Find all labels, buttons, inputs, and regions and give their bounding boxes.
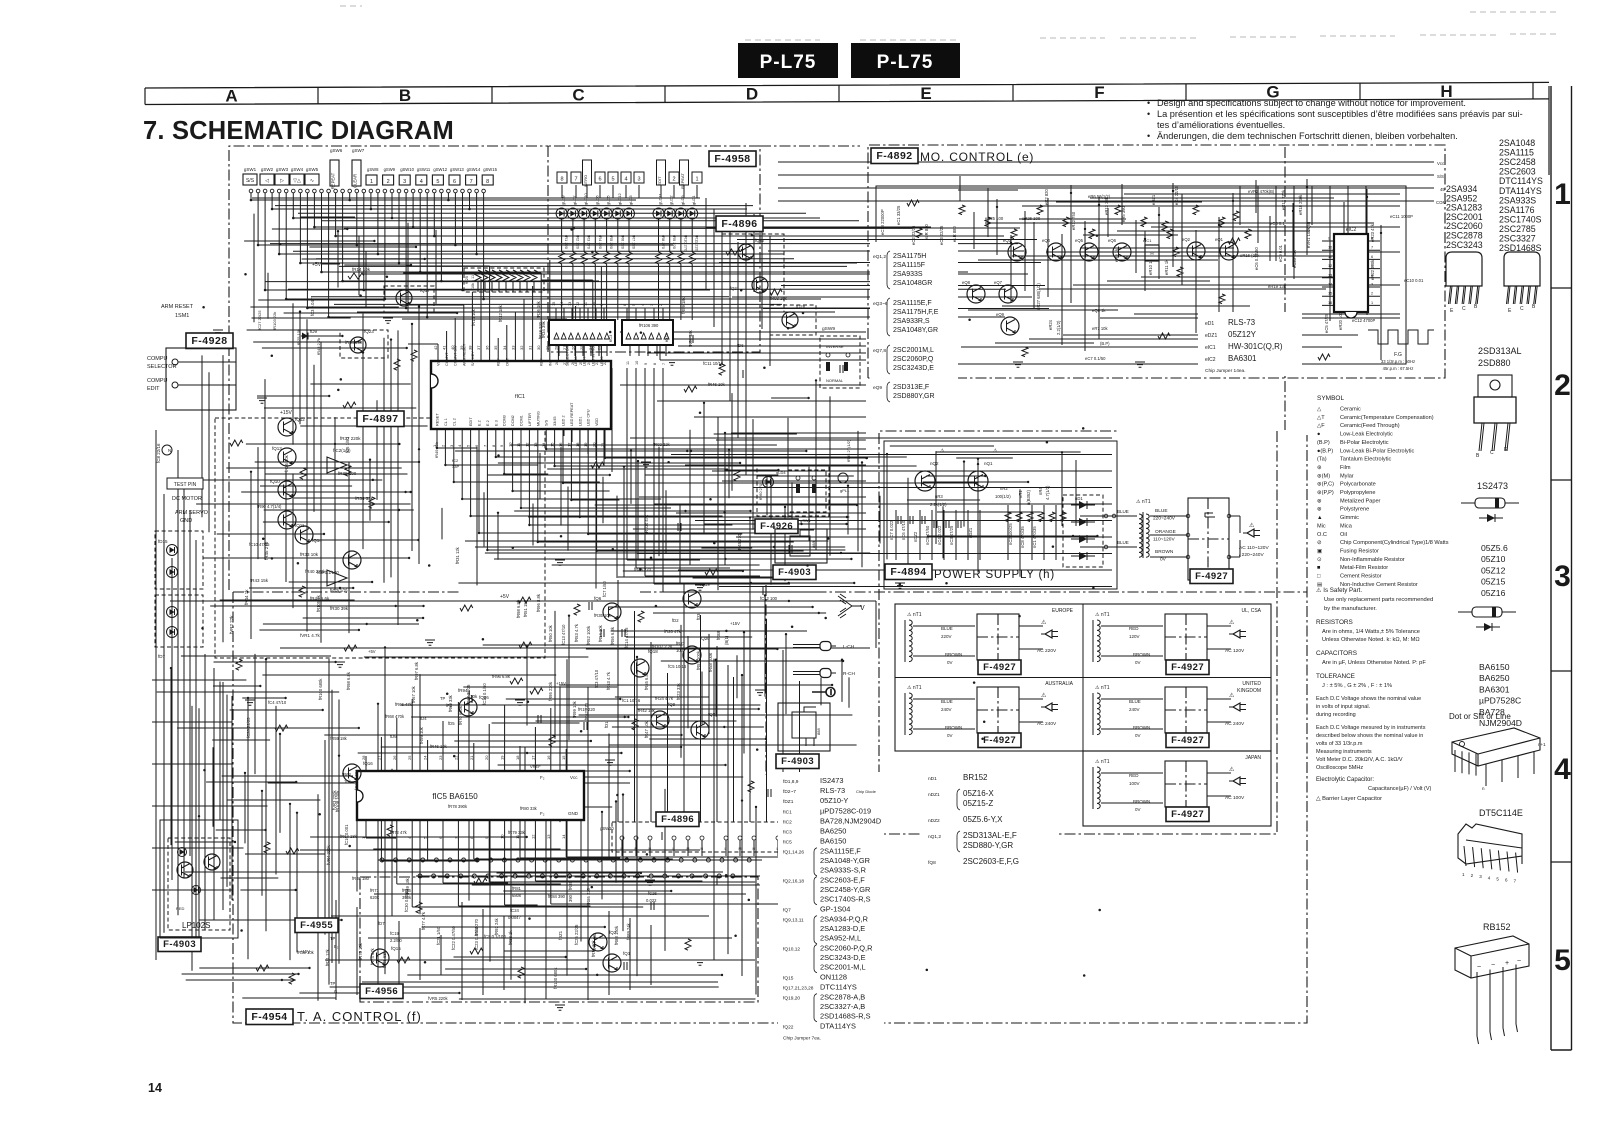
svg-text:eR10 1k: eR10 1k <box>1148 258 1153 275</box>
svg-text:IS2473: IS2473 <box>820 776 843 785</box>
svg-text:fR59 18k: fR59 18k <box>405 877 410 895</box>
svg-text:2SC2458-Y,GR: 2SC2458-Y,GR <box>820 885 870 894</box>
svg-text:•: • <box>1147 109 1150 119</box>
svg-text:D: D <box>746 85 758 104</box>
svg-text:240V: 240V <box>941 707 952 712</box>
svg-text:7: 7 <box>574 177 577 183</box>
svg-text:05Z16-X: 05Z16-X <box>963 789 994 798</box>
svg-text:fC25 22/25: fC25 22/25 <box>574 924 579 945</box>
svg-text:C: C <box>1462 306 1466 312</box>
svg-text:fQ9: fQ9 <box>668 702 676 707</box>
svg-text:nC1 470/35: nC1 470/35 <box>1032 526 1037 548</box>
svg-text:fC18 0.1/50: fC18 0.1/50 <box>482 683 487 705</box>
svg-text:fC8 22/16: fC8 22/16 <box>156 443 161 463</box>
svg-text:8: 8 <box>486 179 489 185</box>
svg-text:+: + <box>1505 960 1509 967</box>
svg-text:fR86 220: fR86 220 <box>586 887 591 905</box>
svg-text:eR13 33k: eR13 33k <box>1104 196 1109 215</box>
svg-text:fD6: fD6 <box>737 343 744 348</box>
svg-text:⚠ nT1: ⚠ nT1 <box>907 612 922 618</box>
svg-text:28: 28 <box>555 361 559 365</box>
svg-text:fR63: fR63 <box>342 772 352 777</box>
svg-text:nC2 100/25: nC2 100/25 <box>1008 523 1013 545</box>
svg-text:fD1: fD1 <box>604 721 609 728</box>
svg-text:21: 21 <box>469 755 474 760</box>
svg-text:13: 13 <box>1328 273 1332 277</box>
svg-text:eC9 0.01: eC9 0.01 <box>1278 244 1283 262</box>
svg-text:Oscilloscope 5MHz: Oscilloscope 5MHz <box>1316 765 1363 771</box>
svg-text:240V: 240V <box>1129 707 1140 712</box>
svg-text:0V: 0V <box>1135 807 1141 812</box>
svg-text:eC4 22/16: eC4 22/16 <box>1174 185 1179 205</box>
svg-text:eC7 0.1/50: eC7 0.1/50 <box>1085 356 1106 361</box>
svg-text:2SC2603-E,F: 2SC2603-E,F <box>820 876 865 885</box>
svg-text:2SC2785: 2SC2785 <box>1499 224 1536 234</box>
svg-text:Low-Leak Electrolytic: Low-Leak Electrolytic <box>1340 432 1393 438</box>
svg-text:F-4958: F-4958 <box>714 153 750 165</box>
svg-text:J : ± 5% , G ± 2% , F : ± 1%: J : ± 5% , G ± 2% , F : ± 1% <box>1322 683 1392 689</box>
svg-text:GP-1S04: GP-1S04 <box>820 905 850 914</box>
svg-text:2SC2001-M,L: 2SC2001-M,L <box>820 962 866 971</box>
svg-text:fR26 47k: fR26 47k <box>664 629 682 634</box>
svg-text:BA6150: BA6150 <box>1479 662 1510 672</box>
svg-text:nDZ1: nDZ1 <box>928 792 940 798</box>
svg-text:05Z12: 05Z12 <box>1481 565 1506 575</box>
svg-text:2SC3243-D,E: 2SC3243-D,E <box>820 953 866 962</box>
svg-text:Chip Component(Cylindrical Typ: Chip Component(Cylindrical Type)1/8 Watt… <box>1340 540 1449 546</box>
svg-text:2SA1283-D,E: 2SA1283-D,E <box>820 924 865 933</box>
svg-text:2SA933S: 2SA933S <box>893 271 923 278</box>
svg-text:eVR1 100k(B): eVR1 100k(B) <box>1306 221 1311 248</box>
svg-text:0V: 0V <box>947 733 953 738</box>
svg-text:fR88: fR88 <box>716 630 721 640</box>
svg-text:F-4927: F-4927 <box>1171 809 1204 820</box>
svg-text:gSW14: gSW14 <box>467 167 481 172</box>
svg-text:Are in ohms, 1/4 Watts,± 5%: Are in ohms, 1/4 Watts,± 5% Tolerance <box>1322 629 1420 635</box>
svg-text:gSW1: gSW1 <box>800 518 812 523</box>
svg-text:9: 9 <box>600 304 604 306</box>
svg-text:fC10 47/25: fC10 47/25 <box>249 542 270 547</box>
svg-text:UNITED: UNITED <box>1242 681 1261 687</box>
svg-text:fR47 10k: fR47 10k <box>644 720 649 738</box>
svg-text:45: 45 <box>1440 187 1445 192</box>
svg-text:eR5 390: eR5 390 <box>1121 205 1126 222</box>
svg-text:−: − <box>1491 962 1495 969</box>
svg-text:V: V <box>860 605 865 612</box>
svg-text:fIC2(1/2): fIC2(1/2) <box>330 588 348 593</box>
svg-text:10k: 10k <box>344 779 352 784</box>
svg-text:fR55 6.8k: fR55 6.8k <box>644 671 649 690</box>
svg-text:27: 27 <box>563 361 567 365</box>
svg-text:eC2 22/25: eC2 22/25 <box>911 225 916 245</box>
svg-text:fR36 10k: fR36 10k <box>536 300 541 318</box>
svg-text:P-L75: P-L75 <box>877 52 934 73</box>
svg-text:fQ12: fQ12 <box>295 417 305 422</box>
svg-text:2: 2 <box>659 304 663 306</box>
svg-text:AC 100V: AC 100V <box>1225 795 1245 801</box>
svg-text:SYMBOL: SYMBOL <box>1317 395 1344 402</box>
svg-text:Tantalum Electrolytic: Tantalum Electrolytic <box>1340 457 1391 463</box>
svg-text:LED 2: LED 2 <box>562 415 566 426</box>
svg-text:gLD3: gLD3 <box>628 195 633 205</box>
svg-text:eR23 47k: eR23 47k <box>1370 223 1375 242</box>
svg-text:05Z16: 05Z16 <box>1481 588 1506 598</box>
svg-text:1: 1 <box>695 177 698 183</box>
svg-text:fR89 24k: fR89 24k <box>626 922 631 940</box>
svg-text:n+1: n+1 <box>1538 742 1546 747</box>
svg-text:14: 14 <box>560 302 564 306</box>
svg-text:2SA933S-S,R: 2SA933S-S,R <box>820 866 866 875</box>
svg-text:gSW9: gSW9 <box>384 167 396 172</box>
svg-text:F-4955: F-4955 <box>300 920 333 931</box>
svg-text:fQ17: fQ17 <box>420 288 430 293</box>
svg-text:BA6250: BA6250 <box>820 827 846 836</box>
svg-text:0V: 0V <box>1160 557 1167 563</box>
svg-text:△F: △F <box>1317 423 1325 429</box>
svg-text:eR20 100: eR20 100 <box>1338 311 1343 330</box>
svg-text:fQ16: fQ16 <box>363 761 373 766</box>
svg-text:⚠: ⚠ <box>1041 619 1047 626</box>
svg-text:F-4903: F-4903 <box>163 939 196 950</box>
svg-text:eC8 0.1: eC8 0.1 <box>1270 221 1285 226</box>
svg-text:fQ19,20: fQ19,20 <box>783 996 800 1002</box>
svg-text:Mic: Mic <box>1317 523 1326 529</box>
svg-text:gLD8: gLD8 <box>561 195 566 205</box>
svg-text:12: 12 <box>576 302 580 306</box>
svg-text:fC9 0.1/100: fC9 0.1/100 <box>484 934 506 939</box>
svg-text:INTRO: INTRO <box>583 175 588 187</box>
svg-text:Vss: Vss <box>437 360 441 366</box>
svg-text:26: 26 <box>392 755 397 760</box>
svg-text:2SD880-Y,GR: 2SD880-Y,GR <box>963 841 1013 850</box>
svg-text:nD1: nD1 <box>928 776 937 782</box>
svg-text:E₂: E₂ <box>334 944 339 949</box>
svg-text:fQ20: fQ20 <box>700 636 710 641</box>
svg-text:fD2: fD2 <box>672 618 679 623</box>
svg-text:gSW5: gSW5 <box>306 167 319 172</box>
svg-text:L: L <box>621 847 623 851</box>
svg-text:H: H <box>1150 251 1153 256</box>
svg-text:fIC1: fIC1 <box>783 809 792 815</box>
svg-text:volts of 33 1/3r.p.m: volts of 33 1/3r.p.m <box>1316 741 1363 747</box>
svg-text:fQ21: fQ21 <box>730 286 740 291</box>
svg-text:2SA1175H,F,E: 2SA1175H,F,E <box>893 309 939 316</box>
svg-text:fC3 47/10: fC3 47/10 <box>594 669 599 688</box>
svg-text:2: 2 <box>387 179 390 185</box>
svg-text:IN: IN <box>548 362 552 366</box>
svg-text:nC6 47/10: nC6 47/10 <box>901 520 906 540</box>
svg-text:fQ13: fQ13 <box>272 446 282 451</box>
svg-text:nR4: nR4 <box>1038 487 1043 495</box>
svg-text:INVERSE: INVERSE <box>826 344 844 349</box>
svg-text:⚠: ⚠ <box>940 448 945 454</box>
svg-text:fR93 10k: fR93 10k <box>770 296 788 301</box>
svg-text:L-CH: L-CH <box>843 644 855 650</box>
svg-text:2SC3243D,E: 2SC3243D,E <box>893 365 934 372</box>
svg-text:fQ9,13,11: fQ9,13,11 <box>783 918 804 924</box>
svg-text:fR9 220: fR9 220 <box>672 235 677 250</box>
svg-text:eIC1: eIC1 <box>1205 345 1216 351</box>
svg-text:31: 31 <box>528 345 533 350</box>
svg-text:Metalized Paper: Metalized Paper <box>1340 498 1381 504</box>
svg-text:2SA1115E,F: 2SA1115E,F <box>893 300 932 307</box>
svg-text:eR19 13k: eR19 13k <box>1268 284 1287 289</box>
svg-text:fR69 33k: fR69 33k <box>448 694 453 712</box>
svg-text:L: L <box>673 847 675 851</box>
svg-text:620k: 620k <box>370 895 380 900</box>
svg-text:VDD: VDD <box>595 418 599 426</box>
svg-text:05Z5.6-Y,X: 05Z5.6-Y,X <box>963 815 1003 824</box>
svg-text:GND: GND <box>180 518 192 524</box>
svg-text:34: 34 <box>502 345 507 350</box>
svg-text:TP: TP <box>330 981 336 986</box>
svg-text:EDIT: EDIT <box>469 417 473 426</box>
svg-text:100(1/2): 100(1/2) <box>995 494 1011 499</box>
svg-text:fR44 1k: fR44 1k <box>244 589 249 605</box>
svg-text:fQ15: fQ15 <box>783 975 794 981</box>
svg-text:fR19 220: fR19 220 <box>578 707 596 712</box>
svg-text:7: 7 <box>470 179 473 185</box>
svg-text:LED CPU: LED CPU <box>587 409 591 426</box>
svg-text:tes d’améliorations éventuelle: tes d’améliorations éventuelles. <box>1157 120 1285 130</box>
svg-text:LED REPEAT: LED REPEAT <box>570 402 574 426</box>
svg-text:gLD10: gLD10 <box>583 192 588 205</box>
svg-text:F-4927: F-4927 <box>983 735 1016 746</box>
svg-text:2SC3243: 2SC3243 <box>1446 240 1483 250</box>
svg-text:AUSTRALIA: AUSTRALIA <box>1045 681 1073 687</box>
svg-text:F-4894: F-4894 <box>890 566 926 578</box>
svg-text:fR74 47k: fR74 47k <box>370 947 375 965</box>
svg-text:fR31 12k: fR31 12k <box>455 546 460 564</box>
svg-text:gSW9: gSW9 <box>822 326 835 332</box>
svg-text:25: 25 <box>407 755 412 760</box>
svg-text:TP: TP <box>330 936 336 941</box>
svg-text:KINGDOM: KINGDOM <box>1237 688 1261 694</box>
svg-text:LED1: LED1 <box>578 417 582 427</box>
svg-text:nDZ1: nDZ1 <box>968 527 973 538</box>
svg-text:1: 1 <box>370 179 373 185</box>
svg-text:fQ19: fQ19 <box>700 582 710 587</box>
svg-text:EDIT: EDIT <box>147 386 160 392</box>
svg-text:fR7 220: fR7 220 <box>632 235 637 250</box>
svg-text:La présention et les spécifica: La présention et les spécifications sont… <box>1157 109 1523 119</box>
svg-text:fR42 18k: fR42 18k <box>498 304 503 322</box>
svg-text:eR24: eR24 <box>1048 319 1053 330</box>
svg-text:gLD5: gLD5 <box>606 195 611 205</box>
svg-text:BA6301: BA6301 <box>1479 684 1510 694</box>
svg-text:fQ18: fQ18 <box>648 649 658 654</box>
svg-text:3: 3 <box>637 177 640 183</box>
svg-text:fIC3: fIC3 <box>783 830 792 836</box>
svg-text:KEY: KEY <box>497 358 501 366</box>
svg-text:Polystyrene: Polystyrene <box>1340 507 1369 513</box>
svg-text:eVR2 470k(B): eVR2 470k(B) <box>1248 189 1275 194</box>
svg-text:fQ1,14,26: fQ1,14,26 <box>783 850 804 856</box>
svg-text:⚠: ⚠ <box>1229 766 1235 773</box>
svg-text:BLUE: BLUE <box>1117 509 1129 514</box>
svg-text:fC21 1/50: fC21 1/50 <box>436 926 441 945</box>
svg-text:fC12 100: fC12 100 <box>760 596 778 601</box>
svg-text:Are in µF, Unless Otherwise: Are in µF, Unless Otherwise Noted. P: pF <box>1322 660 1426 666</box>
svg-text:fR2 220: fR2 220 <box>575 235 580 250</box>
svg-text:11: 11 <box>1328 255 1332 259</box>
svg-text:F₂: F₂ <box>540 811 545 816</box>
svg-text:eC20 13k: eC20 13k <box>1292 249 1297 268</box>
svg-text:⊛(M): ⊛(M) <box>1317 473 1330 479</box>
svg-text:▷: ▷ <box>280 178 284 184</box>
svg-text:eC10 0.01: eC10 0.01 <box>1404 278 1424 283</box>
svg-text:33P: 33P <box>452 464 459 469</box>
svg-text:fR1 220: fR1 220 <box>564 235 569 250</box>
svg-text:Unless Otherwise Noted. k: k: Unless Otherwise Noted. k: kΩ, M: MΩ <box>1322 637 1420 643</box>
svg-text:2SD313AL: 2SD313AL <box>1478 346 1522 356</box>
svg-text:◁: ◁ <box>265 178 269 184</box>
svg-text:⚠ nT1: ⚠ nT1 <box>1095 759 1110 765</box>
svg-text:+15V: +15V <box>730 621 740 626</box>
svg-text:F-4897: F-4897 <box>362 413 398 425</box>
svg-text:gLD11: gLD11 <box>658 193 663 205</box>
svg-text:BROWN: BROWN <box>1133 652 1150 657</box>
svg-text:VREF: VREF <box>530 764 541 769</box>
svg-text:fR106 390: fR106 390 <box>639 323 659 328</box>
svg-text:⚠: ⚠ <box>1249 522 1255 529</box>
svg-text:24: 24 <box>423 755 428 760</box>
svg-text:05Z15: 05Z15 <box>1481 577 1506 587</box>
svg-text:fR8 270: fR8 270 <box>661 235 666 250</box>
svg-text:fD2~7: fD2~7 <box>783 789 796 795</box>
svg-text:Ceramic: Ceramic <box>1340 407 1361 413</box>
svg-text:⊛(P,C): ⊛(P,C) <box>1317 482 1334 488</box>
svg-text:120V: 120V <box>1129 634 1140 639</box>
svg-text:COUNT: COUNT <box>445 352 449 366</box>
svg-text:Chip Diode: Chip Diode <box>856 789 877 794</box>
svg-text:C: C <box>1520 306 1524 312</box>
svg-text:DT5C114E: DT5C114E <box>1479 808 1523 818</box>
svg-text:5: 5 <box>1554 944 1571 977</box>
svg-text:eQ1,2: eQ1,2 <box>873 254 886 260</box>
svg-text:KEY: KEY <box>540 358 544 366</box>
svg-text:Vcc: Vcc <box>1437 161 1445 166</box>
svg-text:2SD313E,F: 2SD313E,F <box>893 384 929 391</box>
svg-text:fQ17,21,23,28: fQ17,21,23,28 <box>783 986 814 992</box>
svg-text:fR17 10k: fR17 10k <box>591 939 596 957</box>
svg-text:ARM RESET: ARM RESET <box>161 304 194 310</box>
svg-text:RED: RED <box>1129 773 1139 778</box>
svg-text:L: L <box>725 847 727 851</box>
svg-text:nDZ2: nDZ2 <box>913 531 918 542</box>
svg-text:eD1: eD1 <box>1205 321 1214 327</box>
svg-text:BR152: BR152 <box>963 773 988 782</box>
svg-text:fR54 10k: fR54 10k <box>598 624 603 642</box>
svg-text:△: △ <box>1317 407 1322 413</box>
svg-text:fR73 10k: fR73 10k <box>358 942 363 960</box>
svg-text:eQ7: eQ7 <box>994 280 1003 285</box>
svg-text:Fusing Resistor: Fusing Resistor <box>1340 548 1379 554</box>
svg-text:05Z12Y: 05Z12Y <box>1228 330 1257 339</box>
svg-text:EUROPE: EUROPE <box>1052 608 1074 614</box>
svg-text:fR34 33k: fR34 33k <box>355 496 374 501</box>
svg-text:Volt Meter D.C. 20kΩ/V, A.C.: Volt Meter D.C. 20kΩ/V, A.C. 1kΩ/V <box>1316 757 1403 763</box>
svg-text:fVR2 22k: fVR2 22k <box>229 615 234 634</box>
svg-text:fC5 10/16: fC5 10/16 <box>668 664 687 669</box>
svg-text:2SD880: 2SD880 <box>1478 358 1511 368</box>
svg-text:fR50 10k: fR50 10k <box>548 624 553 642</box>
svg-text:fR92 22k: fR92 22k <box>653 442 671 447</box>
svg-text:fR35 10k: fR35 10k <box>594 613 612 618</box>
svg-text:11: 11 <box>584 302 588 306</box>
svg-text:fR34 39k: fR34 39k <box>345 340 363 345</box>
svg-text:C: C <box>1490 450 1494 456</box>
svg-text:+5V: +5V <box>500 594 510 600</box>
svg-text:⚠: ⚠ <box>1041 692 1047 699</box>
svg-text:fR65 180: fR65 180 <box>352 876 370 881</box>
svg-text:△T: △T <box>1317 415 1325 421</box>
svg-text:F-4903: F-4903 <box>781 756 814 767</box>
svg-text:eC1 33/25: eC1 33/25 <box>896 205 901 225</box>
svg-text:13: 13 <box>546 834 551 839</box>
svg-text:(B.P): (B.P) <box>1317 440 1330 446</box>
svg-text:⊗: ⊗ <box>1317 498 1322 504</box>
svg-text:AC 220V: AC 220V <box>1037 648 1057 654</box>
svg-text:fDZ1: fDZ1 <box>558 930 563 940</box>
svg-text:nC4 0.022: nC4 0.022 <box>937 525 942 545</box>
svg-text:2SA933R,S: 2SA933R,S <box>893 318 930 325</box>
svg-text:Chip Jumper 14ea.: Chip Jumper 14ea. <box>1205 368 1246 374</box>
svg-text:RLS-73: RLS-73 <box>820 786 845 795</box>
svg-text:S/S: S/S <box>545 419 549 426</box>
svg-text:∿: ∿ <box>310 178 314 184</box>
svg-text:fR51 150: fR51 150 <box>523 599 528 617</box>
svg-text:fC9 0.1/100: fC9 0.1/100 <box>317 570 339 575</box>
svg-text:fR25 10k: fR25 10k <box>296 329 301 345</box>
svg-text:gLD9: gLD9 <box>680 195 685 205</box>
svg-text:3: 3 <box>1371 283 1373 287</box>
svg-text:3: 3 <box>403 179 406 185</box>
svg-text:M: M <box>687 847 690 851</box>
svg-text:fR37 220k: fR37 220k <box>340 436 361 441</box>
svg-text:fD3: fD3 <box>696 613 701 620</box>
svg-text:fR59 18k: fR59 18k <box>681 296 686 314</box>
svg-text:⚠: ⚠ <box>1229 619 1235 626</box>
svg-text:•: • <box>1147 131 1150 141</box>
svg-text:+15V: +15V <box>280 410 292 416</box>
svg-text:fR33 10k: fR33 10k <box>300 552 319 557</box>
svg-text:10: 10 <box>1328 246 1332 250</box>
svg-text:S/S: S/S <box>1437 174 1444 179</box>
svg-text:gSW10: gSW10 <box>400 167 414 172</box>
svg-text:Dot or Slit or Line: Dot or Slit or Line <box>1449 712 1511 721</box>
svg-text:38: 38 <box>467 345 472 350</box>
svg-text:fDZ1: fDZ1 <box>783 799 794 805</box>
svg-text:05Z10-Y: 05Z10-Y <box>820 796 848 805</box>
svg-text:BA6150: BA6150 <box>820 837 846 846</box>
svg-text:eR22 330k: eR22 330k <box>1370 259 1375 280</box>
svg-text:Measuring instruments: Measuring instruments <box>1316 749 1372 755</box>
svg-text:gLD6: gLD6 <box>594 195 599 205</box>
svg-text:fR36 10k: fR36 10k <box>284 454 289 472</box>
svg-text:12: 12 <box>1328 264 1332 268</box>
svg-text:CL 1: CL 1 <box>444 418 448 426</box>
svg-text:E 2: E 2 <box>478 420 482 426</box>
svg-text:fR46 10k: fR46 10k <box>708 382 726 387</box>
svg-text:gSW6: gSW6 <box>330 148 343 153</box>
svg-text:fR64 18k: fR64 18k <box>688 329 693 347</box>
svg-text:fQ15: fQ15 <box>391 946 401 951</box>
svg-text:14: 14 <box>541 442 546 447</box>
svg-text:2.2/50: 2.2/50 <box>390 938 402 943</box>
svg-text:gLD7: gLD7 <box>572 195 577 205</box>
svg-text:AC 110~120V: AC 110~120V <box>1239 545 1269 551</box>
